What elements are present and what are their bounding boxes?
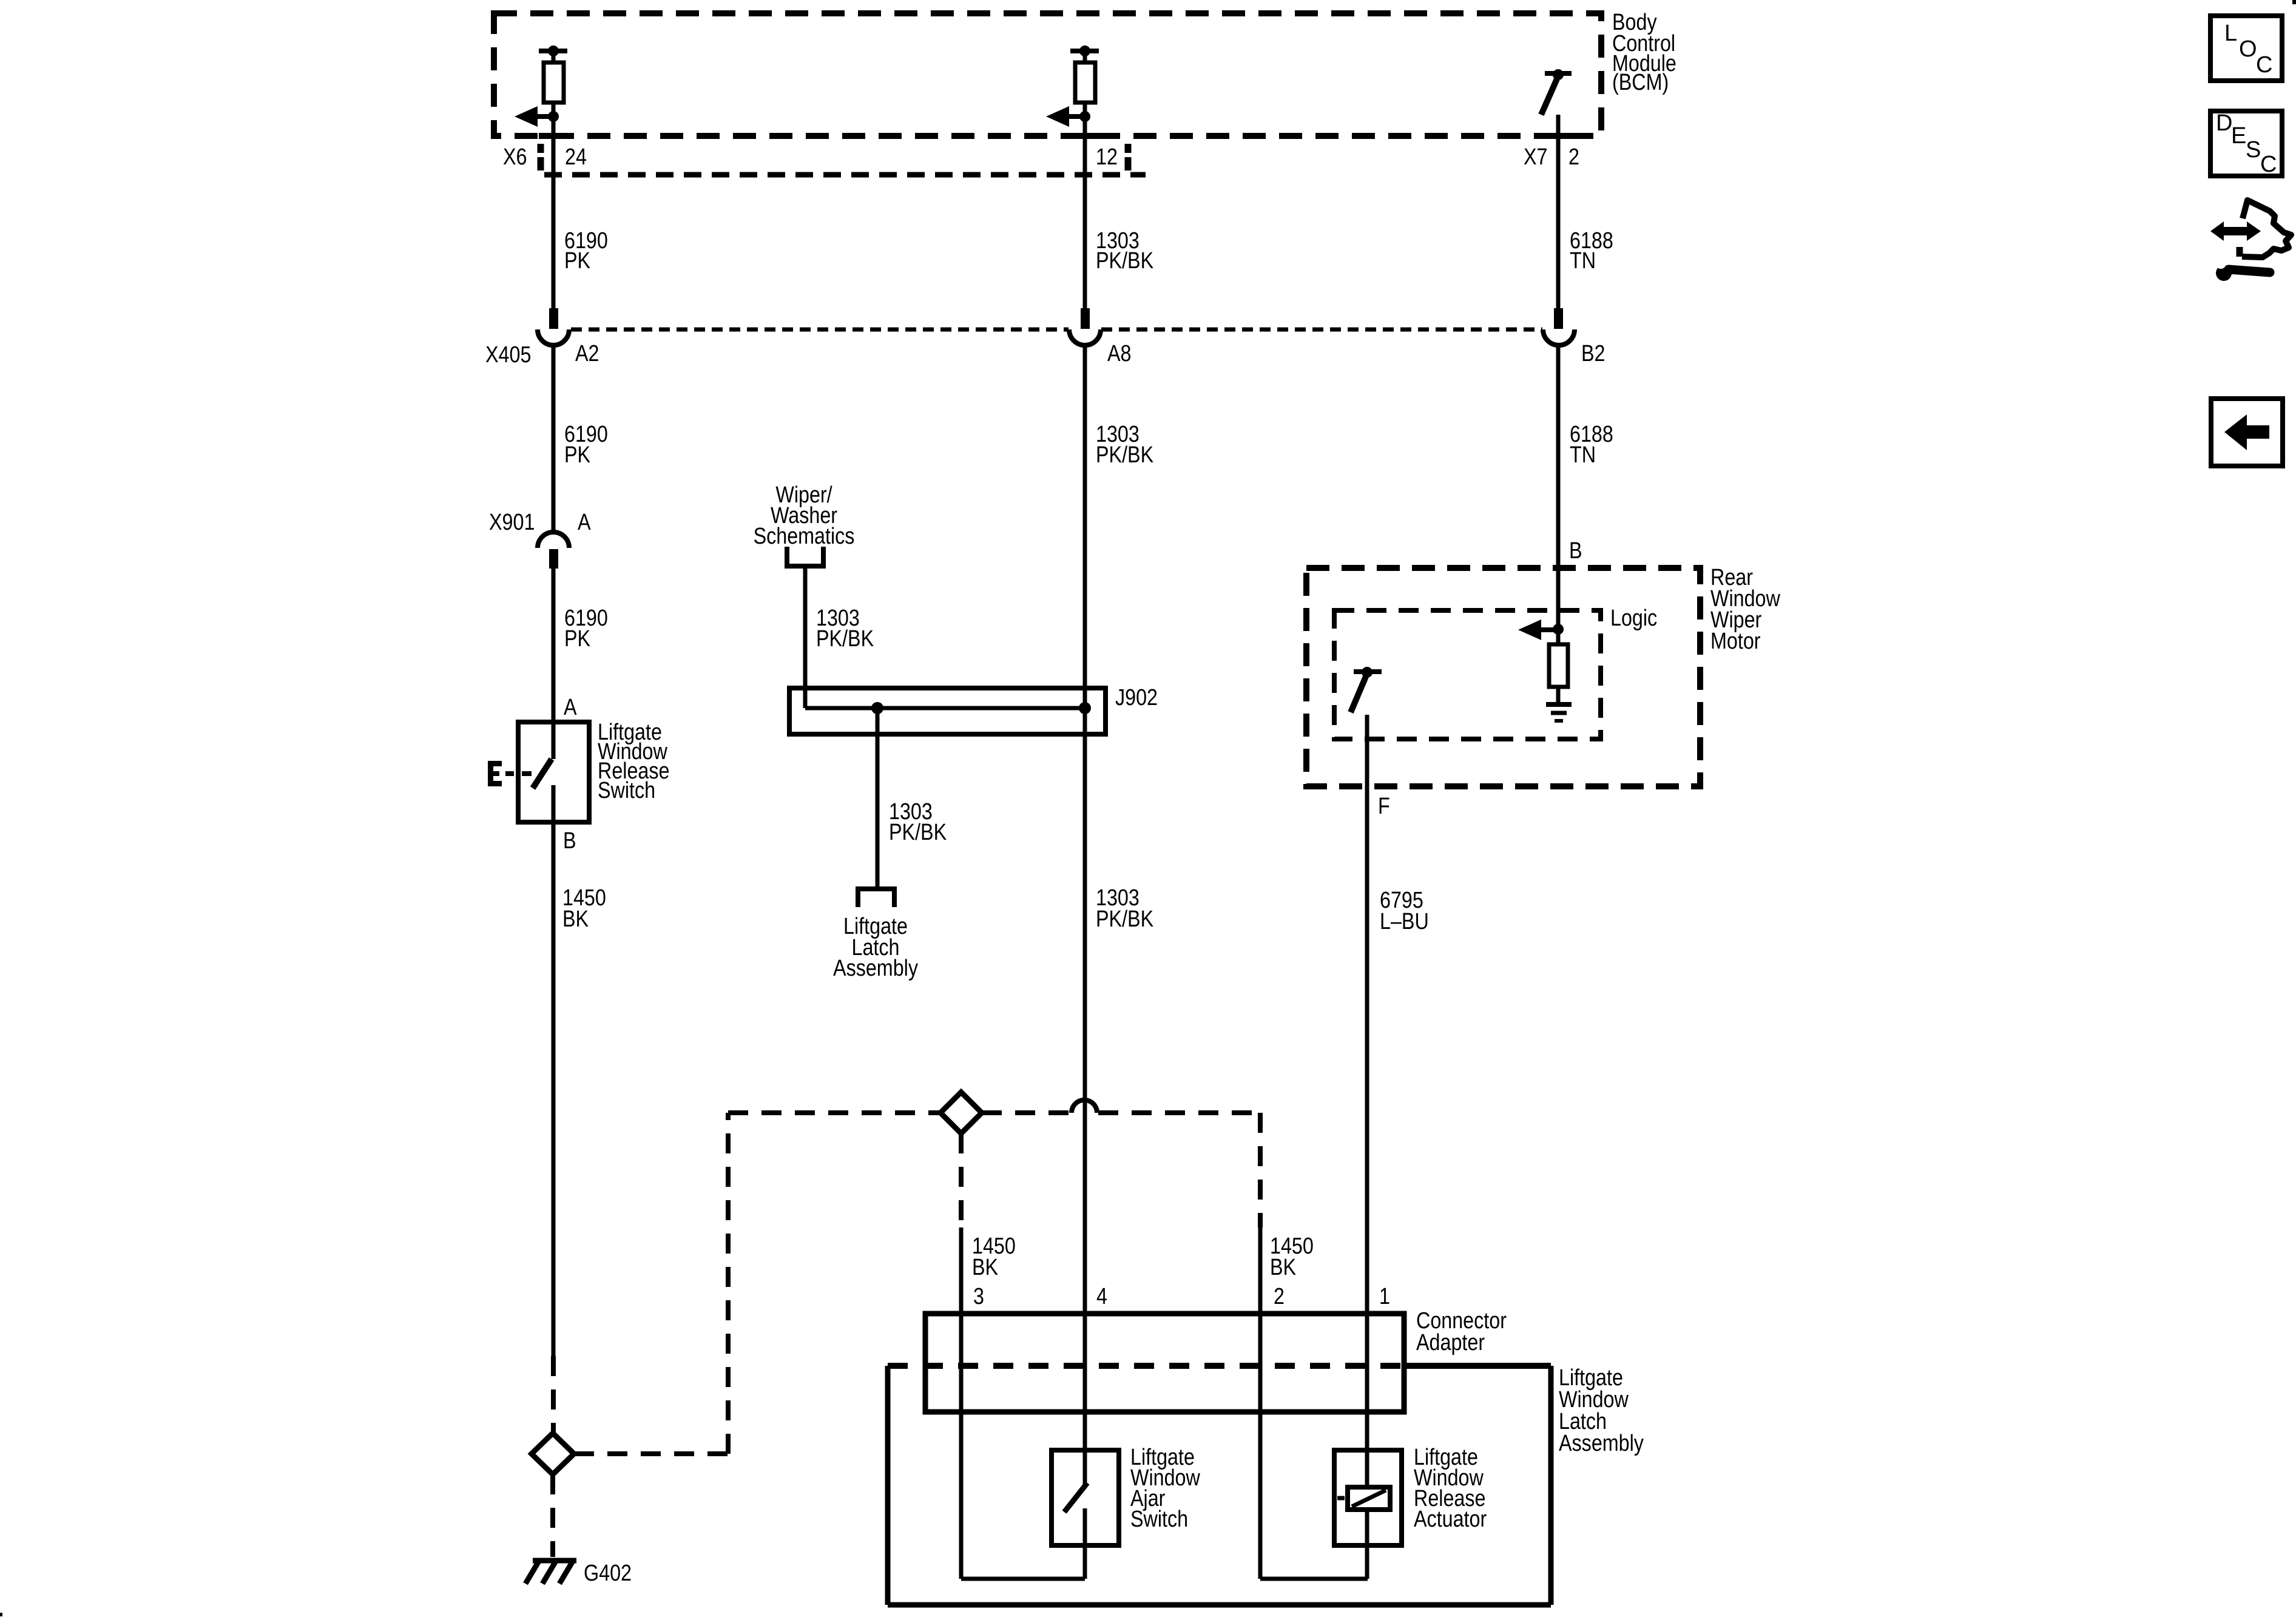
liftgate window latch assembly box (888, 1366, 1551, 1605)
svg-text:A: A (564, 695, 577, 720)
dashed ground bus path (diamond to right) (574, 1113, 940, 1454)
splice pack diamond (left, G402 feed) (532, 1433, 574, 1474)
label Rear Window Wiper Motor (1710, 565, 1780, 654)
svg-text:O: O (2239, 36, 2257, 62)
svg-text:X7: X7 (1524, 144, 1547, 170)
pin label A8 (1107, 341, 1131, 366)
signal arrow (logic input) (1518, 619, 1558, 640)
label Liftgate Window Release Actuator (1414, 1445, 1487, 1532)
label Liftgate Window Ajar Switch (1130, 1445, 1200, 1532)
wire 1303 PK/BK (wiper branch down to J902) (803, 569, 808, 708)
svg-text:TN: TN (1570, 248, 1596, 274)
wire label 1450 BK (release switch drop) (562, 885, 606, 932)
svg-text:L: L (2224, 21, 2237, 46)
signal arrow (left, into BCM logic) (515, 106, 559, 127)
svg-text:1: 1 (1379, 1284, 1390, 1309)
liftgate window release actuator box (1334, 1450, 1402, 1545)
label Connector Adapter (1416, 1308, 1507, 1355)
wire 1303 PK/BK (J902 to liftgate latch assembly) (876, 708, 880, 887)
svg-text:X6: X6 (503, 144, 527, 170)
svg-text:Switch: Switch (598, 778, 655, 803)
wire 6188 TN (X405 B2 to wiper motor pin B) (1556, 346, 1561, 629)
label Wiper/Washer Schematics (754, 482, 855, 549)
svg-text:2: 2 (1274, 1284, 1285, 1309)
pin label B2 (1581, 341, 1605, 366)
DESC sidebar icon box (2210, 110, 2282, 177)
switch (BCM internal, pin X7-2) (1541, 69, 1572, 115)
wire hop over middle wire (1072, 1100, 1097, 1113)
switch blade (release switch) (533, 759, 553, 822)
pin label A2 (575, 341, 599, 366)
wire 6188 TN (BCM X7-2 to X405 B2) (1556, 115, 1561, 309)
rear window wiper motor dashed box (1306, 568, 1700, 786)
svg-text:E: E (2231, 123, 2246, 149)
diagnostic sidebar icon (wrench) (2215, 258, 2270, 281)
LOC sidebar icon box (2210, 16, 2282, 81)
pin number 2 (X7) (1568, 144, 1579, 170)
label Liftgate Latch Assembly (833, 914, 918, 981)
svg-text:PK: PK (564, 442, 591, 468)
svg-text:L–BU: L–BU (1380, 909, 1429, 934)
Body Control Module (BCM) dashed box (494, 13, 1601, 136)
splice J902 bus wire (805, 706, 1085, 711)
wire 1450 BK pin 3 (961, 1227, 1085, 1579)
pin label B (wiper motor) (1569, 538, 1582, 564)
svg-text:12: 12 (1096, 144, 1118, 170)
wire 6190 PK (X901 to release switch pin A) (552, 569, 556, 759)
off-page bracket to Wiper/Washer Schematics (785, 547, 826, 566)
actuator solenoid symbol (1337, 1487, 1390, 1579)
connector label X901 (489, 510, 535, 535)
wire 1450 BK (release switch pin B down) (552, 822, 556, 1356)
svg-text:PK/BK: PK/BK (1096, 906, 1154, 932)
svg-text:PK: PK (564, 248, 591, 274)
diagnostic sidebar icon (double arrow) (2210, 221, 2261, 241)
dashed drop right (pin 2) (1258, 1113, 1263, 1227)
wire label 1303 PK/BK (top) (1096, 228, 1154, 274)
page artifact dot top-right (2292, 0, 2296, 4)
connector adapter box (925, 1314, 1404, 1412)
resistor (BCM output driver, left, pin X6-24) (539, 46, 567, 116)
label Liftgate Window Release Switch (598, 720, 669, 803)
pin number 3 (973, 1284, 984, 1309)
wire label 6190 PK (top) (564, 228, 608, 274)
svg-text:Motor: Motor (1710, 629, 1761, 654)
svg-text:BK: BK (562, 906, 589, 932)
svg-text:2: 2 (1568, 144, 1579, 170)
svg-text:3: 3 (973, 1284, 984, 1309)
svg-text:B2: B2 (1581, 341, 1605, 366)
svg-text:J902: J902 (1115, 685, 1158, 711)
liftgate window ajar switch box (1052, 1450, 1119, 1545)
switch (wiper motor park switch) (1351, 667, 1382, 712)
logic dashed box (1334, 610, 1601, 739)
resistor (BCM output driver, middle, pin 12) (1070, 46, 1099, 116)
connector strip bottom dashed edge (544, 172, 1146, 178)
pin label B (release switch) (563, 828, 576, 854)
svg-text:C: C (2260, 152, 2277, 177)
junction dot J902 right (1079, 702, 1091, 714)
svg-text:(BCM): (BCM) (1612, 70, 1669, 95)
svg-text:F: F (1378, 794, 1390, 819)
label Body Control Module (BCM) (1612, 10, 1676, 95)
svg-text:BK: BK (972, 1255, 999, 1280)
dashed drop from center diamond (pin 3) (959, 1133, 964, 1227)
junction dot (logic input) (1553, 624, 1564, 635)
connector X405 pin A2 (538, 308, 569, 345)
wire label 6188 TN (second) (1570, 422, 1613, 468)
junction dot J902 left (871, 702, 883, 714)
svg-text:Switch: Switch (1130, 1507, 1188, 1532)
svg-text:X901: X901 (489, 510, 535, 535)
pin number 4 (1096, 1284, 1107, 1309)
wire label 6188 TN (top) (1570, 228, 1613, 274)
wire label 1303 PK/BK (second) (1096, 422, 1154, 468)
svg-text:Actuator: Actuator (1414, 1507, 1487, 1532)
svg-text:A2: A2 (575, 341, 599, 366)
svg-text:4: 4 (1096, 1284, 1107, 1309)
connector X405 pin B2 (1543, 308, 1575, 345)
svg-text:D: D (2216, 110, 2232, 136)
svg-text:B: B (563, 828, 576, 854)
label J902 (1115, 685, 1158, 711)
pin label A (release switch) (564, 695, 577, 720)
wire label 6190 PK (second) (564, 422, 608, 468)
resistor (wiper motor logic pull-down) (1549, 629, 1568, 703)
dashed ground bus path (center diamond to pin 2 drop) (982, 1110, 1260, 1115)
pin label A (X901) (578, 510, 591, 535)
ground G402 symbol (525, 1561, 576, 1584)
svg-text:A8: A8 (1107, 341, 1131, 366)
wire label 1303 PK/BK (wiper branch) (816, 606, 874, 652)
svg-text:C: C (2256, 52, 2272, 78)
signal arrow (middle, into BCM logic) (1046, 106, 1090, 127)
svg-text:BK: BK (1270, 1255, 1297, 1280)
splice pack diamond (center) (940, 1092, 982, 1133)
pin number 1 (1379, 1284, 1390, 1309)
connector label X405 (485, 342, 531, 368)
liftgate window release switch S box (518, 722, 589, 822)
svg-text:PK/BK: PK/BK (1096, 248, 1154, 274)
svg-text:Logic: Logic (1610, 606, 1657, 631)
pin number 24 (565, 144, 587, 170)
pin number 12 (1096, 144, 1118, 170)
svg-text:PK/BK: PK/BK (1096, 442, 1154, 468)
E mechanical actuation symbol (488, 761, 532, 786)
svg-text:Assembly: Assembly (833, 956, 918, 981)
wire label 1450 BK (pin 2) (1270, 1234, 1314, 1280)
svg-text:TN: TN (1570, 442, 1596, 468)
off-page bracket to Liftgate Latch Assembly (856, 889, 897, 907)
wire 1450 BK pin 2 (1260, 1227, 1368, 1579)
svg-text:B: B (1569, 538, 1582, 564)
svg-text:24: 24 (565, 144, 587, 170)
svg-text:Schematics: Schematics (754, 524, 855, 549)
svg-text:PK/BK: PK/BK (889, 820, 947, 845)
dashed wire to splice diamond (551, 1356, 556, 1432)
connector X405 in-line dashed lane (571, 328, 1542, 332)
wire 6190 PK (BCM X6-24 to X405) (552, 116, 556, 309)
wire label 1303 PK/BK (J902 drop) (889, 799, 947, 845)
label Logic (1610, 606, 1657, 631)
splice J902 box (789, 688, 1106, 734)
svg-text:PK/BK: PK/BK (816, 626, 874, 652)
label G402 (584, 1561, 632, 1586)
pin label X6 (503, 144, 527, 170)
connector X901 pin A (538, 532, 569, 569)
wire 6190 PK (X405 A2 to X901) (552, 346, 556, 533)
wire 6795 L-BU (park switch pin F to actuator) (1365, 715, 1369, 1487)
wire label 6190 PK (third) (564, 606, 608, 652)
connector X6 separator dashes (538, 144, 544, 170)
svg-text:PK: PK (564, 626, 591, 652)
wire label 6795 L-BU (1380, 888, 1429, 934)
svg-text:X405: X405 (485, 342, 531, 368)
back arrow sidebar icon box (2211, 399, 2283, 466)
switch blade (ajar switch) (1064, 1450, 1087, 1579)
page artifact dot bottom-left (0, 1613, 2, 1616)
ground symbol (logic internal) (1546, 704, 1572, 721)
svg-text:Assembly: Assembly (1559, 1431, 1644, 1456)
pin label F (1378, 794, 1390, 819)
connector 12 separator dashes (1125, 144, 1132, 170)
svg-text:S: S (2246, 137, 2261, 163)
pin label X7 (1524, 144, 1547, 170)
dashed wire diamond to ground (550, 1474, 555, 1557)
diagnostic sidebar icon (outline shape) (2240, 200, 2291, 257)
pin number 2 (adapter) (1274, 1284, 1285, 1309)
wire label 1450 BK (pin 3) (972, 1234, 1016, 1280)
wire 1303 PK/BK (BCM 12 to J902 and pin 4) (1083, 116, 1087, 1450)
label Liftgate Window Latch Assembly (1559, 1365, 1644, 1456)
svg-text:G402: G402 (584, 1561, 632, 1586)
wire label 1303 PK/BK (lower) (1096, 885, 1154, 932)
svg-text:Adapter: Adapter (1416, 1330, 1485, 1355)
connector X405 pin A8 (1069, 308, 1101, 345)
svg-text:A: A (578, 510, 591, 535)
